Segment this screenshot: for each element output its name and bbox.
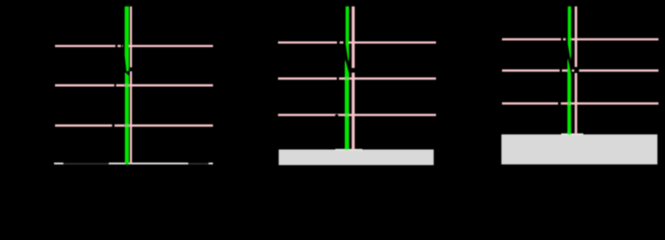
reference line lower (panel 2, pink vertical below break gap) [352,73,355,150]
pile bar upper (panel 2, green column above break) [346,6,349,44]
faint layer line overlay L2b across pile (panel 2) [345,77,349,79]
reference line lower (panel 1, pink vertical below break gap) [130,71,132,164]
bearing slab (panel 2, light grey stratum block) [279,150,434,166]
pile break upper wedge (panel 2) [346,44,349,62]
layer line L1c (panel 3, top pink stratum line, with gaps) [502,38,659,40]
pile cap mark (panel 2, white strip on slab top) [335,149,362,151]
faint layer line overlay L3a across pile (panel 1) [125,124,130,126]
layer line L1a (panel 1, top pink stratum line, with gaps from black marker) [55,45,213,47]
reference line upper (panel 2, pink vertical above break gap) [352,6,355,68]
faint layer line overlay L3b across pile (panel 2) [345,114,349,116]
pile bar lower with break lower wedge (panel 3) [567,58,571,134]
faint layer line overlay L2a across pile (panel 1) [125,84,130,86]
bearing slab (panel 3, thick light grey stratum block) [501,134,657,164]
ground surface line (panel 1, dark grey base line) [55,163,213,165]
reference line upper (panel 3, pink vertical above break gap) [575,6,578,67]
pile bar lower with break lower wedge (panel 1, green column below break) [125,72,129,164]
ground surface highlight centre (panel 1, white segment under pile) [109,163,188,165]
pile bar upper (panel 3, green column above break) [568,6,571,44]
arrow tip notch (black marker tip biting into L3b) [335,114,339,117]
reference line lower (panel 3, pink vertical below break gap) [575,73,578,135]
pile cap mark (panel 3, white strip on slab top) [561,133,583,135]
pile break upper wedge (panel 3) [568,44,571,59]
layer line L3b (panel 2, bottom pink stratum line) [278,114,436,117]
ground surface highlight right (panel 1, white segment) [209,163,213,165]
layer line L2c (panel 3, middle pink stratum line) [502,69,659,71]
reference line upper (panel 1, pink vertical original pile position above break gap) [130,6,132,67]
pile break upper wedge (panel 1, green taper into break symbol) [125,56,129,72]
layer line L2b (panel 2, middle pink stratum line) [278,77,436,79]
layer line L3c (panel 3, bottom pink stratum line) [502,102,659,104]
pile bar lower with break lower wedge (panel 2) [345,60,349,150]
layer line L2a (panel 1, middle pink stratum line) [55,84,213,86]
faint layer line overlay L3c across pile (panel 3) [568,102,572,104]
layer line L1b (panel 2, top pink stratum line, with gaps) [278,41,436,43]
pile bar upper (panel 1, green column above break) [125,6,129,55]
layer line L3a (panel 1, bottom pink stratum line) [55,124,213,126]
ground surface highlight left (panel 1, white segment) [54,163,63,165]
